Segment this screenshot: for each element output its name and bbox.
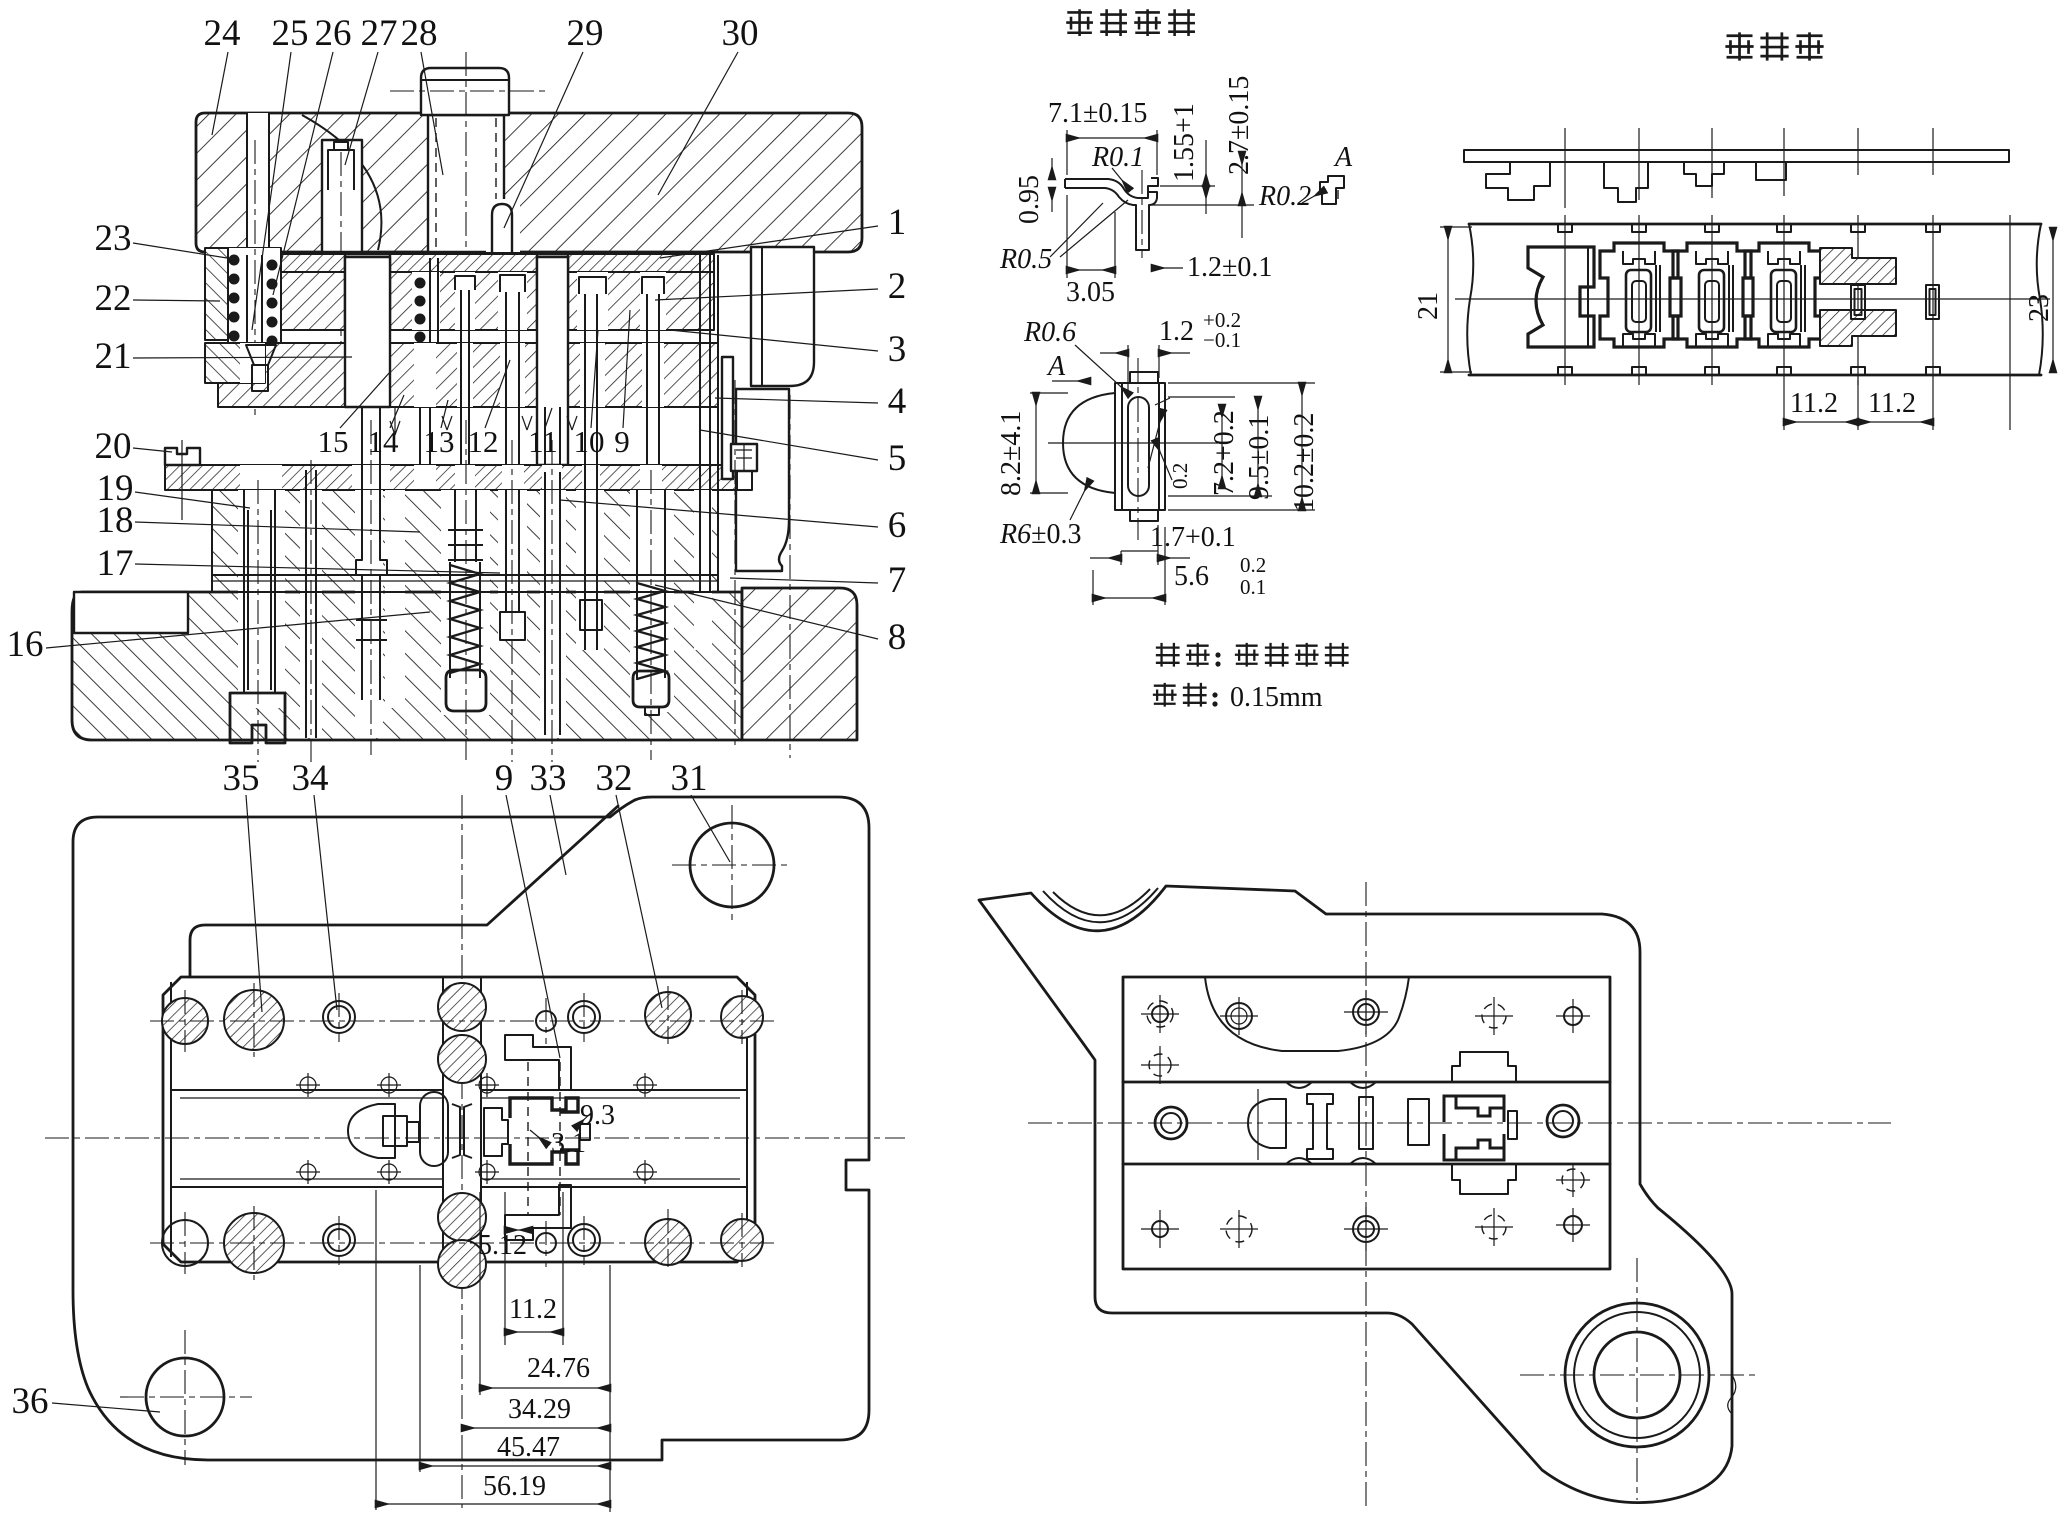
svg-text:9.3: 9.3 [580,1100,615,1131]
bottom plate [72,592,742,740]
pin 25 hole [247,113,269,252]
svg-text:34: 34 [292,758,329,799]
slots in stripper [352,343,390,407]
bracket part thick [510,1098,578,1164]
bolt 28 head [421,68,509,115]
svg-text:11.2: 11.2 [1790,388,1838,419]
svg-text:3: 3 [888,329,907,370]
svg-text:3.1: 3.1 [551,1128,586,1159]
dimension extension lines [376,1190,610,1512]
bolt 28 hole [428,115,504,252]
svg-text:0.2: 0.2 [1240,553,1266,577]
material text 材料：镀镍铁带 [1156,643,1180,667]
svg-text:1: 1 [888,202,907,243]
svg-text:23: 23 [95,218,132,259]
svg-text:1.2: 1.2 [1159,316,1194,347]
svg-text:31: 31 [671,758,708,799]
small cross targets [296,1073,657,1184]
die plate thin [165,465,768,490]
big circle bottom-left [146,1358,224,1436]
top row circles [1152,1006,1168,1022]
screw 35 [244,490,275,693]
svg-text:28: 28 [401,13,438,54]
svg-text:0.2: 0.2 [1168,463,1192,489]
dashed part outline [527,1062,529,1215]
clamp screw right 5 [731,444,757,471]
svg-text:10.2±0.2: 10.2±0.2 [1289,413,1320,512]
frame [1115,383,1165,510]
station 5 hatched scrap [1820,248,1896,284]
slots in lower block / bottom plate [238,490,285,708]
left spring housing 22 [205,248,281,340]
svg-text:10: 10 [574,424,605,459]
svg-text:21: 21 [95,336,132,377]
screw 27 [328,142,354,190]
svg-text:−0.1: −0.1 [1203,328,1241,352]
bottom stub [1130,510,1158,521]
clamp 20 left [165,448,200,465]
outer contour upper die [979,886,1732,1503]
center vertical strip column [442,977,444,1262]
spring screw middle [448,530,483,560]
right centerline [734,380,736,745]
svg-text:0.15mm: 0.15mm [1230,682,1323,713]
svg-text:R0.1: R0.1 [1091,142,1144,173]
upper backing plate [212,254,714,272]
guide pillar [345,257,390,407]
lower support block [212,490,718,592]
svg-text:20: 20 [95,426,132,467]
column circles [438,983,486,1031]
svg-text:8.2±4.1: 8.2±4.1 [996,411,1027,496]
svg-text:7.2+0.2: 7.2+0.2 [1209,410,1240,496]
channel rails [1123,1081,1610,1084]
small crosshairs [1141,990,1590,1251]
strip channel rails [171,1089,443,1091]
title 排样图 [1725,32,1753,60]
dim 21 left [1447,227,1449,372]
screw 27 slot [322,140,362,252]
pilot pin 25 [246,255,248,345]
centerlines upper [1564,128,1566,208]
station at 1784 [1745,243,1823,347]
svg-text:29: 29 [567,13,604,54]
svg-text:15: 15 [318,424,349,459]
pin 29 slot [486,199,520,252]
right edge break squiggle [1728,1375,1736,1414]
svg-text:8: 8 [888,617,907,658]
svg-text:0.95: 0.95 [1014,175,1045,224]
station 1: M-cut [1528,247,1594,347]
svg-text:9.5±0.1: 9.5±0.1 [1244,415,1275,500]
svg-text:2: 2 [888,266,907,307]
svg-text:11.2: 11.2 [1868,388,1916,419]
slot [1128,397,1149,496]
middle spring dots [415,278,426,343]
svg-text:5: 5 [888,438,907,479]
D punch [1248,1099,1286,1148]
title 冲压件图 [1066,9,1093,36]
station at 1639 [1600,243,1678,347]
svg-text:1.55+1: 1.55+1 [1169,103,1200,182]
pin 29 [492,204,512,252]
centerline horizontal [1455,298,2050,300]
bottom row circles [1152,1221,1168,1237]
svg-text:A: A [1046,351,1066,382]
svg-text:56.19: 56.19 [483,1471,546,1502]
die plate rect [163,977,755,1262]
skeleton strip side view [1464,150,2009,162]
svg-text:11: 11 [528,424,558,459]
svg-text:25: 25 [272,13,309,54]
svg-text:R0.5: R0.5 [999,244,1052,275]
svg-text:36: 36 [12,1381,49,1422]
section break arc in top plate [302,115,381,250]
bolt centerline [465,52,467,262]
top-left blob boundary [1205,977,1409,1051]
svg-text:0.1: 0.1 [1240,575,1266,599]
svg-text:9: 9 [614,424,630,459]
punches crossing open band [362,407,659,472]
station 6 slot [1926,285,1939,319]
I-beam pin [1307,1094,1333,1159]
outer contour lower die [73,797,869,1460]
punch holder plate [212,272,714,330]
svg-text:17: 17 [97,543,134,584]
punch 9 [505,490,507,612]
right foot block [742,588,857,740]
blank punch column [537,257,568,465]
pin 34 [305,470,307,738]
upper part sketch: bent contact [1065,178,1158,198]
station centerlines [1564,215,1566,385]
channel guide rings [1155,1107,1187,1139]
spring 23 coil dots left [229,255,278,361]
big circle bottom right [1565,1303,1709,1447]
svg-text:1.7+0.1: 1.7+0.1 [1150,522,1236,553]
oblong [420,1092,448,1166]
svg-text:24.76: 24.76 [527,1353,590,1384]
D punch [348,1104,395,1158]
oblong slot [1359,1097,1373,1149]
bolt circles bottom row [162,1220,208,1266]
guide bushing inner arcs [1043,888,1158,922]
centerlines [1028,1122,1891,1124]
top plate 24 [196,113,862,252]
row centerlines [150,1020,775,1022]
die plate rect [1123,977,1610,1269]
centerlines [1137,358,1139,540]
punch T-heads in holder plate [455,275,664,407]
right mid block [736,389,789,571]
svg-text:14: 14 [368,424,400,459]
svg-text:7: 7 [888,560,907,601]
main centerlines [45,1137,905,1139]
stepped pin right [585,465,597,650]
bolt thread dashes [435,118,437,250]
svg-text:26: 26 [315,13,352,54]
A-view part [1320,176,1344,204]
svg-text:R0.2: R0.2 [1258,181,1311,212]
hanging scrap profiles [1486,162,1550,200]
guide post circle top right [690,823,774,907]
svg-text:22: 22 [95,278,132,319]
svg-text:2.7±0.15: 2.7±0.15 [1224,76,1255,175]
stripper plate 21 [218,343,718,407]
right thin plate [722,357,733,479]
top pin [1130,372,1158,383]
D bulge [1063,393,1115,493]
svg-text:5.6: 5.6 [1174,561,1209,592]
slots in punch holder [345,254,390,330]
bolt circles top row [162,998,208,1044]
svg-text:30: 30 [722,13,759,54]
station at 1712 [1673,243,1751,347]
svg-text:7.1±0.15: 7.1±0.15 [1048,98,1147,129]
inner step edge with diagonal [190,806,618,977]
lower flag outline [1452,1164,1516,1194]
svg-text:11.2: 11.2 [509,1294,557,1325]
svg-text:9: 9 [495,758,514,799]
spring screw head middle [446,670,486,711]
svg-text:21: 21 [1413,292,1444,320]
pin 33 column [544,472,546,735]
svg-text:35: 35 [223,758,260,799]
svg-text:18: 18 [97,500,134,541]
svg-text:24: 24 [204,13,241,54]
svg-text:23: 23 [2024,294,2055,322]
svg-text:12: 12 [468,424,499,459]
right punch column [699,255,701,592]
svg-text:5.12: 5.12 [478,1230,527,1261]
pinch slots [452,1104,472,1158]
thickness text 料厚：0.15mm [1153,683,1177,707]
spring middle [450,565,480,673]
svg-text:13: 13 [424,424,455,459]
step punch [484,1108,508,1156]
notches top/bottom [1558,224,1940,375]
bottom plate left notch [74,592,188,633]
lower bracket outline [505,1185,571,1240]
dim 23 right [2052,228,2054,372]
screw head in stripper left [246,345,276,365]
svg-text:3.05: 3.05 [1066,277,1115,308]
upper flag outline [1452,1052,1516,1082]
svg-text:45.47: 45.47 [497,1432,560,1463]
svg-text:16: 16 [7,624,44,665]
svg-text:A: A [1333,142,1353,173]
tiny gap arrows in open band [390,407,577,435]
svg-text:R6±0.3: R6±0.3 [999,519,1081,550]
svg-text:1.2±0.1: 1.2±0.1 [1187,252,1272,283]
leader lines from 35 34 9 33 32 31 [246,795,262,1012]
svg-text:27: 27 [361,13,398,54]
svg-text:R0.6: R0.6 [1023,317,1076,348]
upper bracket outline [505,1035,571,1090]
svg-text:34.29: 34.29 [508,1394,571,1425]
strip plan view outer [1469,223,2041,226]
right spring [636,490,638,581]
svg-text:6: 6 [888,505,907,546]
svg-text:32: 32 [596,758,633,799]
rect slot [1408,1099,1429,1145]
ejector pin with step [356,465,387,700]
right side upper bracket 1/2 [751,247,814,386]
svg-text:4: 4 [888,381,907,422]
svg-text:33: 33 [530,758,567,799]
bracket part [1444,1096,1504,1122]
